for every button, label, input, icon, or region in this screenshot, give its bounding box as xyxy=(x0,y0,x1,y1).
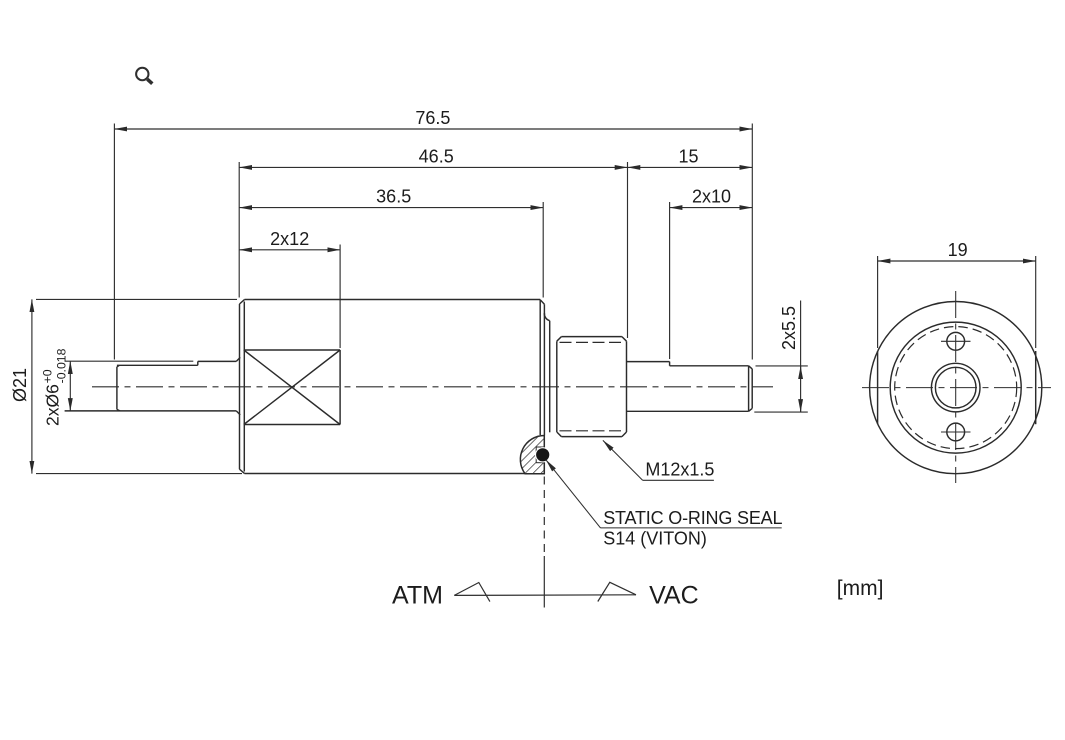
arrow down 2x5.5 xyxy=(800,400,802,412)
dim 76.5 line xyxy=(114,128,752,130)
o-ring cross-section dot xyxy=(536,448,549,461)
atm/vac dashed boundary xyxy=(543,477,545,557)
main body bottom edge xyxy=(245,473,527,475)
main body top edge xyxy=(245,299,541,301)
svg-text:S14 (VITON): S14 (VITON) xyxy=(603,529,707,549)
left shaft step xyxy=(197,361,199,365)
dim 19 line xyxy=(878,260,1036,262)
ext line right 36.5 xyxy=(542,202,544,298)
vac flag xyxy=(598,582,636,601)
end view centre line horizontal xyxy=(862,387,1051,389)
svg-text:2x5.5: 2x5.5 xyxy=(779,306,799,350)
ext line left 76.5 xyxy=(113,124,115,360)
ext line right 76.5/15 xyxy=(751,124,753,360)
svg-text:Ø21: Ø21 xyxy=(10,368,30,402)
right shaft step xyxy=(669,362,671,366)
ext line 46.5/15 middle xyxy=(627,162,629,338)
left shaft top flare xyxy=(236,357,240,361)
ext line top dia21 xyxy=(36,298,237,300)
o-ring white ring xyxy=(535,447,550,462)
atm flag xyxy=(454,583,490,602)
neck line xyxy=(549,321,551,433)
ext line bottom dia21 xyxy=(36,473,242,475)
end view flat right xyxy=(1035,351,1037,424)
ext line right 19 xyxy=(1035,256,1037,348)
svg-text:2xØ6+0-0.018: 2xØ6+0-0.018 xyxy=(40,348,68,426)
hole top centre tick xyxy=(941,340,971,342)
svg-text:VAC: VAC xyxy=(649,582,699,610)
right shaft flat edge xyxy=(670,365,749,367)
left shaft bottom edge with ext xyxy=(65,410,237,412)
main body left edge xyxy=(240,300,245,474)
svg-text:M12x1.5: M12x1.5 xyxy=(645,459,714,479)
svg-text:15: 15 xyxy=(678,146,698,166)
o-ring groove xyxy=(536,447,544,463)
X-box diagonal 2 xyxy=(244,350,340,425)
dim 2x10 line xyxy=(670,207,753,209)
right shaft end face xyxy=(749,366,753,412)
centre line main axis xyxy=(92,386,773,388)
main body left chamfer line xyxy=(243,302,245,472)
main body right chamfer xyxy=(540,300,544,304)
X-box section xyxy=(244,350,340,425)
end view hole top xyxy=(947,332,965,350)
end view flat left xyxy=(877,351,879,424)
dim 2x12 line xyxy=(239,249,340,251)
o-ring seal hatched blob xyxy=(520,436,544,474)
ext line top 2xdia6 xyxy=(65,360,194,362)
left shaft flat edge xyxy=(117,364,198,366)
ext line top 2x5.5 xyxy=(756,365,808,367)
dim 2x5.5 line xyxy=(800,301,802,413)
arrow up 2x5.5 xyxy=(800,366,802,378)
svg-text:19: 19 xyxy=(948,240,968,260)
end view hole bottom xyxy=(947,423,965,441)
magnifier icon xyxy=(136,68,152,84)
ext line bottom 2x5.5 xyxy=(754,411,808,413)
left shaft bottom flare xyxy=(236,411,240,415)
svg-text:ATM: ATM xyxy=(392,582,443,610)
atm/vac solid boundary xyxy=(543,556,545,608)
ext line left 19 xyxy=(877,256,879,348)
seal boss face line xyxy=(543,304,545,435)
end view outer circle xyxy=(870,302,1042,474)
end view bore outer xyxy=(931,363,980,412)
ext line right 2x12 xyxy=(339,245,341,349)
end view dashed circle xyxy=(895,327,1017,449)
left shaft end face xyxy=(117,365,120,411)
thread dashed lines xyxy=(560,342,625,430)
end view centre line vertical xyxy=(955,291,957,483)
dim 2xdia6 line xyxy=(69,361,71,411)
hole bottom centre tick xyxy=(941,431,971,433)
leader M12x1.5 xyxy=(603,440,714,480)
dim 36.5 line xyxy=(239,207,543,209)
svg-text:STATIC O-RING SEAL: STATIC O-RING SEAL xyxy=(603,508,782,528)
dim 46.5 line xyxy=(239,166,627,168)
end view inner circle xyxy=(890,322,1021,453)
svg-text:76.5: 76.5 xyxy=(415,108,450,128)
leader static o-ring seal xyxy=(546,460,782,528)
ext line left 46.5/36.5/2x12 xyxy=(238,162,240,298)
right shaft end chamfer line xyxy=(748,366,750,412)
svg-text:[mm]: [mm] xyxy=(837,577,884,600)
right shaft bottom edge xyxy=(627,410,749,412)
right shaft top edge xyxy=(627,361,670,363)
svg-text:2x12: 2x12 xyxy=(270,229,309,249)
end view bore inner xyxy=(935,367,976,408)
dim 15 line xyxy=(628,166,753,168)
neck fillet top xyxy=(544,313,549,321)
left shaft top edge xyxy=(198,360,237,362)
dimension texts xyxy=(10,108,968,426)
X-box diagonal 1 xyxy=(244,350,340,425)
svg-text:36.5: 36.5 xyxy=(376,187,411,207)
main body right edge xyxy=(539,300,541,436)
thread chamfers xyxy=(557,337,627,437)
dim dia21 line xyxy=(31,299,33,473)
thread section outline xyxy=(557,337,627,437)
svg-text:46.5: 46.5 xyxy=(419,146,454,166)
svg-text:2x10: 2x10 xyxy=(692,187,731,207)
atm/vac line xyxy=(454,594,636,597)
ext line left 2x10 xyxy=(669,202,671,359)
